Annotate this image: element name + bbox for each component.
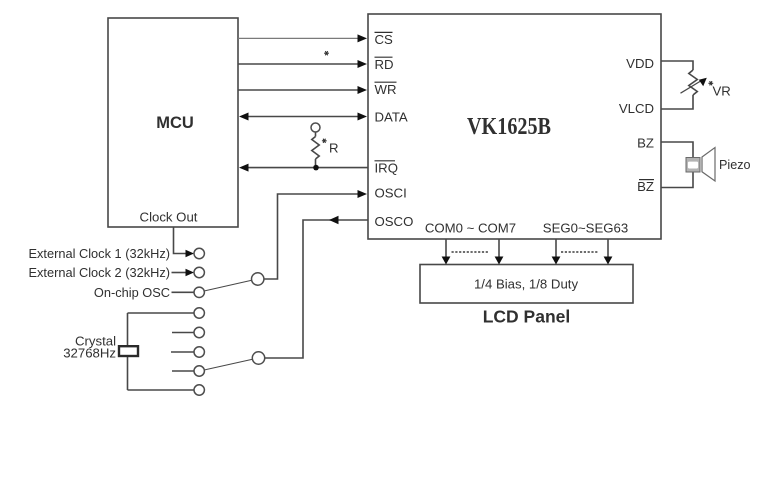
svg-text:BZ: BZ xyxy=(637,136,654,151)
svg-text:VDD: VDD xyxy=(626,56,654,71)
svg-text:MCU: MCU xyxy=(156,114,194,132)
svg-text:1/4 Bias, 1/8 Duty: 1/4 Bias, 1/8 Duty xyxy=(474,277,578,292)
svg-text:On-chip OSC: On-chip OSC xyxy=(94,285,170,300)
svg-text:R: R xyxy=(329,141,339,156)
svg-text:OSCO: OSCO xyxy=(375,214,414,229)
svg-text:IRQ: IRQ xyxy=(375,161,398,176)
svg-text:DATA: DATA xyxy=(375,109,408,124)
svg-text:RD: RD xyxy=(375,57,394,72)
svg-text:VLCD: VLCD xyxy=(619,101,654,116)
svg-text:WR: WR xyxy=(375,82,397,97)
svg-text:VK1625B: VK1625B xyxy=(467,114,551,140)
svg-text:Clock Out: Clock Out xyxy=(140,209,198,224)
svg-text:OSCI: OSCI xyxy=(375,186,407,201)
svg-text:Piezo: Piezo xyxy=(719,158,751,172)
svg-text:32768Hz: 32768Hz xyxy=(63,346,116,361)
svg-text:VR: VR xyxy=(713,84,731,99)
svg-text:CS: CS xyxy=(375,32,394,47)
svg-text:External Clock 2 (32kHz): External Clock 2 (32kHz) xyxy=(28,265,170,280)
svg-text:LCD Panel: LCD Panel xyxy=(483,307,571,327)
svg-text:SEG0~SEG63: SEG0~SEG63 xyxy=(543,221,628,236)
svg-text:BZ: BZ xyxy=(637,179,654,194)
svg-text:COM0 ~ COM7: COM0 ~ COM7 xyxy=(425,221,516,236)
svg-text:External Clock 1 (32kHz): External Clock 1 (32kHz) xyxy=(28,246,170,261)
